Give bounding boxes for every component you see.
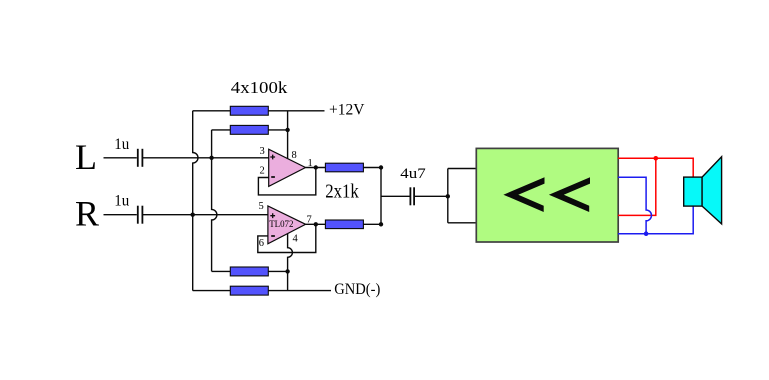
svg-text:8: 8 xyxy=(292,150,297,161)
wire U1A output xyxy=(306,167,326,169)
svg-text:TL072: TL072 xyxy=(269,219,293,229)
svg-text:3: 3 xyxy=(260,146,265,157)
node junction dot blue xyxy=(644,231,649,236)
wire mixing vertical xyxy=(380,168,382,225)
node junction dot L / vertical B xyxy=(209,156,213,160)
wire opamp pin4 down to gnd rail with hop over feedback xyxy=(288,234,293,291)
op-amp U1A plus symbol xyxy=(270,155,275,160)
svg-text:R: R xyxy=(75,194,99,234)
capacitor C2 1u (R) xyxy=(138,206,143,224)
node junction dot R2 to +12V rail xyxy=(285,128,289,132)
op-amp U1B minus symbol xyxy=(271,235,275,237)
wire L cap to opamp pin3 xyxy=(142,157,268,159)
node junction dot R3 to gnd rail xyxy=(285,269,289,273)
op-amp U1A minus symbol xyxy=(271,176,275,178)
node junction dot R / vertical A xyxy=(191,213,195,217)
wire speaker - (blue) upper from amp with hop over red xyxy=(618,177,652,233)
wire mix to cap C3 xyxy=(381,195,410,197)
wire U1B output xyxy=(306,223,326,225)
amplifier symbol << xyxy=(503,177,590,212)
svg-text:2x1k: 2x1k xyxy=(325,182,359,203)
node junction dot U1A output xyxy=(314,165,318,169)
wire R input to cap xyxy=(104,214,137,216)
node junction dot mix top xyxy=(379,165,383,169)
wire U1A feedback loop xyxy=(258,168,315,195)
resistor R2 100k xyxy=(212,129,231,131)
wire vertical A (R bias rail) with hop over L line xyxy=(193,111,198,291)
svg-text:2: 2 xyxy=(260,166,265,177)
resistor R1 100k top xyxy=(193,110,231,112)
resistor R3 100k lower xyxy=(212,270,231,272)
wire speaker + (red) top xyxy=(618,158,693,177)
svg-text:1u: 1u xyxy=(114,193,129,210)
node junction dot amp input xyxy=(446,194,450,198)
capacitor C1 1u (L) xyxy=(138,149,143,167)
capacitor C3 4u7 xyxy=(410,187,414,205)
wire cap C3 to amp input node xyxy=(414,195,448,197)
svg-text:GND(-): GND(-) xyxy=(334,281,380,298)
svg-text:+12V: +12V xyxy=(329,102,365,119)
speaker LS1 magnet body xyxy=(684,177,702,206)
wire vertical B (L bias rail) with hop over R line xyxy=(212,130,217,272)
op-amp U1B plus symbol xyxy=(270,213,275,218)
wire amp input bracket xyxy=(447,169,449,223)
resistor R6 1k bottom xyxy=(325,220,363,229)
svg-text:5: 5 xyxy=(259,201,264,212)
wire speaker + (red) lower from amp xyxy=(618,158,656,215)
svg-text:4u7: 4u7 xyxy=(400,166,425,182)
svg-text:6: 6 xyxy=(259,238,264,249)
resistor R4 100k bottom xyxy=(193,290,231,292)
svg-text:4: 4 xyxy=(293,233,299,244)
svg-text:L: L xyxy=(75,137,97,177)
node junction dot red xyxy=(654,156,659,161)
node junction dot mix bottom xyxy=(379,222,383,226)
wire L input to cap xyxy=(104,157,137,159)
svg-text:1u: 1u xyxy=(114,136,129,153)
wire speaker - (blue) bottom xyxy=(618,206,693,234)
wire R cap to opamp pin5 xyxy=(142,214,268,216)
wire +12V rail down to opamp pin8 xyxy=(287,111,289,159)
speaker LS1 cone xyxy=(702,157,722,224)
op-amp U1A triangle xyxy=(269,149,306,186)
wire U1B feedback loop xyxy=(258,224,316,252)
node junction dot U1B output xyxy=(314,222,318,226)
resistor R5 1k top xyxy=(325,163,363,172)
amplifier block (green box) xyxy=(476,148,618,242)
op-amp U1B triangle xyxy=(268,206,306,244)
svg-text:4x100k: 4x100k xyxy=(231,78,288,97)
